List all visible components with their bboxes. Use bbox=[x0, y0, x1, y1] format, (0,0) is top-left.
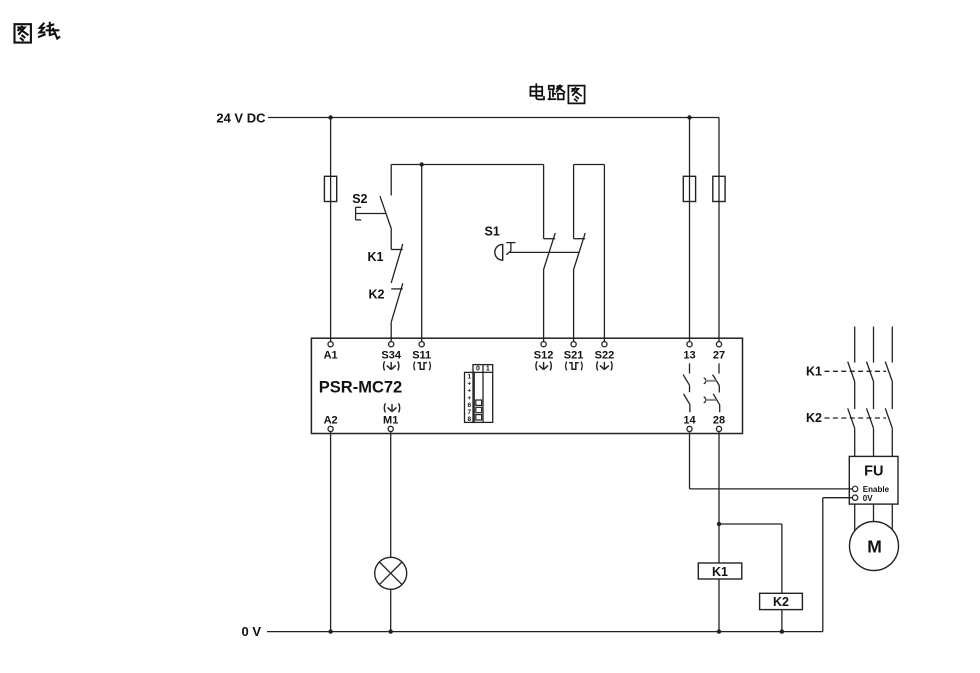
svg-text:+: + bbox=[467, 388, 471, 395]
svg-text:7: 7 bbox=[467, 409, 471, 416]
svg-text:1: 1 bbox=[486, 366, 490, 373]
svg-text:K2: K2 bbox=[773, 595, 789, 609]
svg-text:S34: S34 bbox=[381, 350, 401, 362]
svg-text:K2: K2 bbox=[806, 411, 822, 425]
svg-text:6: 6 bbox=[467, 402, 471, 409]
svg-text:K1: K1 bbox=[712, 565, 728, 579]
svg-text:+: + bbox=[467, 381, 471, 388]
svg-text:S21: S21 bbox=[564, 350, 584, 362]
svg-text:A2: A2 bbox=[324, 415, 338, 427]
svg-text:S2: S2 bbox=[352, 192, 367, 206]
svg-text:14: 14 bbox=[683, 415, 696, 427]
svg-text:Enable: Enable bbox=[863, 485, 890, 494]
svg-text:PSR-MC72: PSR-MC72 bbox=[319, 378, 402, 396]
svg-text:27: 27 bbox=[713, 350, 725, 362]
svg-text:S1: S1 bbox=[485, 224, 500, 238]
svg-text:K1: K1 bbox=[368, 250, 384, 264]
svg-text:13: 13 bbox=[683, 350, 695, 362]
svg-text:K2: K2 bbox=[369, 287, 385, 301]
svg-text:0 V: 0 V bbox=[241, 624, 261, 639]
svg-text:+: + bbox=[467, 395, 471, 402]
svg-text:A1: A1 bbox=[324, 350, 338, 362]
svg-text:0: 0 bbox=[476, 366, 480, 373]
svg-text:FU: FU bbox=[864, 464, 883, 480]
svg-text:24 V DC: 24 V DC bbox=[216, 111, 266, 126]
svg-text:8: 8 bbox=[467, 416, 471, 423]
svg-text:K1: K1 bbox=[806, 364, 822, 378]
svg-text:M1: M1 bbox=[383, 415, 398, 427]
svg-text:1: 1 bbox=[467, 374, 471, 381]
svg-text:S11: S11 bbox=[412, 350, 431, 362]
svg-text:28: 28 bbox=[713, 415, 725, 427]
svg-text:S12: S12 bbox=[534, 350, 554, 362]
svg-text:S22: S22 bbox=[595, 350, 615, 362]
svg-text:M: M bbox=[867, 537, 882, 557]
svg-text:0V: 0V bbox=[863, 494, 873, 503]
